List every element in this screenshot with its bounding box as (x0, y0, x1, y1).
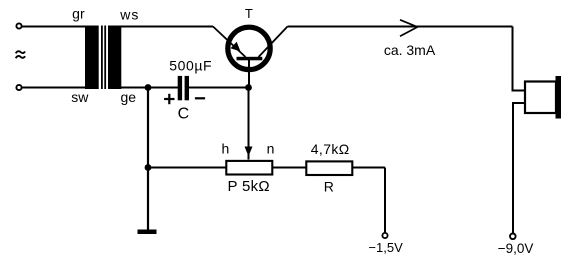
svg-text:500µF: 500µF (169, 58, 212, 74)
svg-text:4,7kΩ: 4,7kΩ (311, 141, 350, 157)
svg-text:P 5kΩ: P 5kΩ (227, 178, 269, 195)
svg-text:−1,5V: −1,5V (368, 240, 403, 255)
svg-text:n: n (267, 141, 275, 157)
svg-text:ge: ge (121, 89, 137, 105)
svg-text:C: C (178, 105, 190, 122)
svg-text:R: R (324, 179, 334, 195)
svg-text:sw: sw (71, 89, 89, 105)
svg-text:h: h (222, 141, 230, 157)
svg-text:T: T (245, 6, 253, 21)
svg-text:gr: gr (72, 6, 85, 22)
svg-text:ca. 3mA: ca. 3mA (384, 42, 436, 58)
svg-text:−9,0V: −9,0V (498, 241, 534, 256)
svg-text:ws: ws (119, 6, 139, 22)
